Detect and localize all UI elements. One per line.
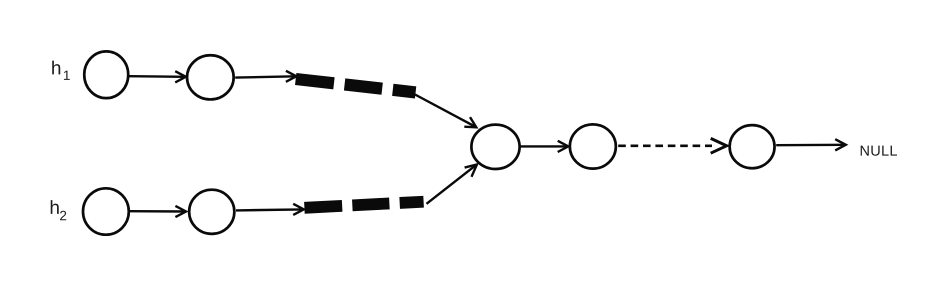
- arrow B1 to B2: [130, 206, 186, 217]
- node B1: [83, 188, 129, 234]
- thick dashed segment of list 2: [304, 202, 423, 208]
- arrow B2 to tail dashes: [236, 204, 304, 215]
- node B2: [189, 190, 234, 234]
- arrow C1 to C2: [520, 141, 568, 152]
- arrow A2 to tail dashes: [235, 71, 296, 82]
- dashed arrow C2 to C3: [618, 138, 726, 153]
- merge node C1: [471, 125, 519, 169]
- node C2: [570, 124, 616, 168]
- node A2: [187, 55, 234, 99]
- wire from list1 dashes to merge node: [415, 95, 476, 128]
- node C3: [730, 125, 775, 168]
- wire from list2 dashes to merge node: [427, 165, 477, 204]
- arrow A1 to A2: [129, 71, 185, 82]
- label NULL: [861, 146, 897, 156]
- node A1: [84, 51, 128, 98]
- label h2: [51, 200, 67, 220]
- label h1: [52, 61, 70, 80]
- arrow C3 to NULL: [776, 139, 846, 150]
- thick dashed segment of list 1: [296, 79, 416, 92]
